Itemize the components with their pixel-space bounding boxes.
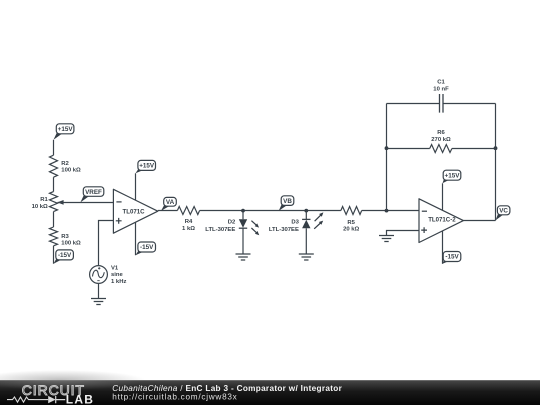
node junction rail/feedback: [385, 209, 389, 213]
wire V1 to ground: [98, 283, 100, 298]
source V1 sine: [90, 266, 108, 284]
node junction at D3: [304, 209, 308, 213]
svg-text:LAB: LAB: [66, 393, 94, 405]
svg-text:-15V: -15V: [445, 254, 459, 261]
svg-text:R1: R1: [40, 197, 48, 203]
+15V supply flag (divider top): [54, 124, 74, 140]
wire feedback right riser: [495, 104, 497, 221]
svg-text:+15V: +15V: [445, 172, 461, 179]
svg-text:TL071C-2: TL071C-2: [428, 217, 456, 224]
op-amp U2 TL071C-2: [419, 199, 463, 243]
node label VB: [279, 196, 294, 211]
svg-text:V1: V1: [111, 265, 119, 271]
node label VA: [161, 197, 176, 211]
svg-text:C1: C1: [437, 80, 445, 86]
svg-text:sine: sine: [111, 272, 124, 278]
LED D2 LTL-307EE (cathode down): [239, 219, 259, 235]
node junction R6 left: [385, 146, 389, 150]
+15V supply flag (op-amp2): [443, 170, 461, 183]
node junction at D2: [241, 209, 245, 213]
CircuitLab logo: resistor zigzag: [7, 397, 34, 402]
svg-text:+15V: +15V: [139, 163, 155, 170]
svg-text:LTL-307EE: LTL-307EE: [205, 227, 235, 233]
node label VREF: [80, 187, 103, 203]
+15V supply flag (op-amp1): [136, 160, 156, 173]
op-amp U1 TL071C: [113, 189, 157, 233]
node label VC: [496, 206, 510, 221]
wire R5 to op-amp2: [362, 210, 419, 212]
wire R6 row left: [387, 148, 430, 150]
wire +15V to R2: [53, 140, 55, 155]
wire junction to D3: [305, 211, 307, 220]
wire R6 row right: [452, 148, 496, 150]
svg-text:VC: VC: [499, 208, 508, 215]
wire VREF: wiper to op-amp inverting input: [58, 202, 114, 204]
resistor R4: [177, 207, 199, 215]
wire +15V supply to op-amp1: [135, 173, 137, 202]
resistor R2: [50, 155, 58, 177]
wire +15V supply to op-amp2: [442, 183, 444, 212]
svg-text:100 kΩ: 100 kΩ: [61, 167, 81, 173]
svg-text:R6: R6: [437, 130, 445, 136]
-15V supply flag (op-amp1): [136, 242, 156, 255]
wire feedback left riser: [386, 104, 388, 211]
svg-text:20 kΩ: 20 kΩ: [343, 227, 359, 233]
svg-text:R2: R2: [61, 161, 69, 167]
svg-text:+15V: +15V: [58, 126, 74, 133]
wire C1 row left: [387, 103, 440, 105]
wire D2 to ground: [242, 228, 244, 254]
footer bar: [0, 380, 540, 405]
potentiometer R1: [50, 192, 58, 212]
svg-text:1 kΩ: 1 kΩ: [182, 226, 195, 232]
resistor R5: [341, 207, 362, 215]
wire -15V supply to op-amp2: [442, 229, 444, 264]
ground (D2): [236, 254, 251, 260]
wire junction to D2: [242, 211, 244, 220]
wire op-amp1 + input to V1: [99, 221, 114, 266]
svg-text:LTL-307EE: LTL-307EE: [269, 227, 299, 233]
ground (D3): [299, 254, 314, 260]
svg-text:http://circuitlab.com/cjww83x: http://circuitlab.com/cjww83x: [112, 392, 237, 401]
wire op-amp2 output: [463, 220, 495, 222]
LED D3 LTL-307EE (cathode up): [302, 212, 323, 228]
svg-text:R4: R4: [185, 219, 193, 225]
svg-text:1 kHz: 1 kHz: [111, 279, 126, 285]
node junction R6 right: [494, 146, 498, 150]
wire D3 to ground: [305, 228, 307, 254]
resistor R6: [430, 145, 452, 153]
svg-text:-15V: -15V: [140, 244, 154, 251]
svg-text:VA: VA: [166, 199, 175, 206]
wire R1 to R3: [53, 212, 55, 227]
-15V supply flag (op-amp2): [443, 252, 461, 264]
-15V supply flag (divider bottom): [54, 250, 74, 264]
svg-text:10 nF: 10 nF: [433, 86, 449, 92]
capacitor C1: [440, 94, 444, 113]
wire R4 to R5 (through D2, VB, D3): [200, 210, 341, 212]
svg-text:D3: D3: [291, 220, 299, 226]
resistor R3: [50, 227, 58, 246]
ground (op-amp2 + input): [379, 236, 394, 242]
wire R2 to R1: [53, 177, 55, 191]
wire C1 row right: [443, 103, 496, 105]
wire -15V supply to op-amp1: [135, 220, 137, 255]
svg-text:VREF: VREF: [85, 189, 102, 196]
CircuitLab logo: diode symbol: [34, 399, 48, 401]
svg-text:TL071C: TL071C: [123, 208, 146, 215]
R1 wiper arrow: [57, 200, 63, 205]
wire op-amp1 output to R4: [158, 210, 178, 212]
svg-text:R3: R3: [61, 234, 69, 240]
wire R3 to -15V: [53, 246, 55, 264]
svg-text:R5: R5: [347, 220, 355, 226]
svg-text:10 kΩ: 10 kΩ: [32, 204, 48, 210]
svg-text:D2: D2: [228, 220, 236, 226]
svg-text:-15V: -15V: [58, 252, 72, 259]
wire op-amp2 + input to ground: [387, 231, 420, 236]
svg-text:270 kΩ: 270 kΩ: [431, 137, 451, 143]
svg-text:100 kΩ: 100 kΩ: [61, 241, 81, 247]
svg-text:VB: VB: [283, 198, 292, 205]
ground (V1): [91, 299, 106, 305]
